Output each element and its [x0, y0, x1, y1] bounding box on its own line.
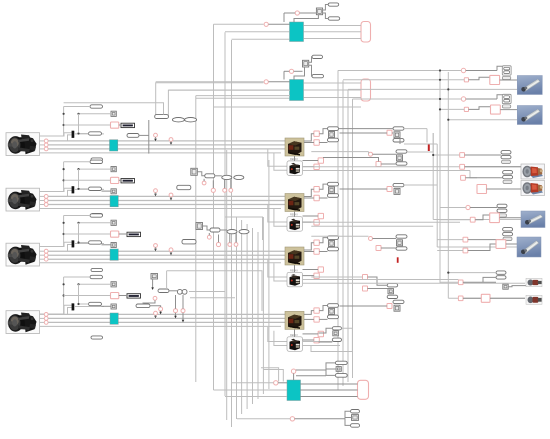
cyan block C5 — [287, 380, 301, 401]
wire vertA — [63, 277, 65, 314]
small gray — [336, 367, 341, 372]
wire ch1 top feed — [64, 103, 164, 115]
wire long3 — [48, 148, 285, 150]
wire — [311, 235, 368, 237]
small pill — [497, 209, 507, 212]
wire — [465, 154, 502, 156]
wire — [439, 108, 464, 110]
small pill — [328, 3, 339, 6]
small gray — [397, 240, 403, 246]
node pink sq — [464, 78, 468, 82]
wire mux out — [74, 243, 104, 245]
node pink sq — [458, 280, 463, 285]
wire — [301, 389, 358, 391]
wire — [368, 277, 388, 285]
merge block — [502, 66, 511, 75]
wire — [303, 341, 333, 343]
pink scope — [111, 177, 119, 183]
wire — [348, 88, 517, 90]
wire stair ch3b — [274, 263, 287, 281]
wire mux up — [68, 245, 72, 252]
wire in1 — [156, 81, 264, 83]
node pink sq — [387, 304, 392, 309]
node — [153, 296, 157, 300]
small gray — [329, 308, 335, 314]
small pill — [210, 228, 220, 232]
wire — [508, 286, 526, 287]
wire long2 — [48, 144, 285, 146]
small gray g1 — [111, 282, 116, 287]
wire long3 — [48, 204, 285, 206]
small gray g1 — [111, 111, 116, 116]
node pink sq — [314, 131, 319, 136]
wire — [300, 12, 317, 14]
wire — [303, 171, 478, 178]
node pink sq — [318, 213, 323, 218]
wire bus right x448 — [447, 72, 449, 298]
small pill — [396, 235, 407, 238]
wire — [212, 180, 214, 188]
wire bus x263.4 — [262, 217, 264, 394]
node pink sq — [318, 331, 323, 336]
display block — [121, 179, 135, 183]
wire in2 — [225, 31, 290, 33]
small pill p2 — [89, 241, 102, 244]
wire — [215, 175, 222, 177]
wire — [294, 212, 296, 217]
node — [174, 309, 178, 313]
wire p2 — [40, 144, 45, 146]
wire p2 — [40, 254, 45, 256]
wire — [237, 418, 290, 420]
small pill — [328, 315, 339, 319]
small pill — [496, 276, 506, 279]
wire long1 — [48, 140, 285, 142]
wire — [311, 276, 362, 278]
arrow — [154, 247, 157, 251]
wire bus x258 — [257, 232, 259, 399]
wire — [303, 282, 526, 284]
node pink sq — [314, 140, 319, 145]
mux — [72, 241, 74, 248]
small gray g2 — [111, 189, 116, 194]
small pill — [496, 271, 506, 274]
node pink sq — [314, 220, 319, 225]
wire — [319, 184, 327, 189]
wire — [303, 339, 314, 341]
wire pill2 in — [77, 132, 88, 134]
node — [291, 369, 295, 373]
wire — [169, 290, 177, 292]
small pill — [328, 247, 339, 251]
wire scope in — [64, 295, 111, 297]
pink scope — [111, 231, 119, 237]
wire — [293, 373, 295, 380]
small motor image SM2 — [526, 295, 542, 304]
small pill — [393, 300, 404, 303]
node — [223, 188, 227, 192]
wire — [229, 234, 231, 243]
node port1 — [44, 139, 48, 143]
wire out3 — [304, 38, 362, 40]
wire — [319, 328, 333, 333]
wire bus x236.5 — [236, 217, 238, 419]
wire — [304, 243, 314, 250]
wire — [159, 311, 162, 314]
node pink sq — [318, 158, 323, 163]
node — [169, 193, 173, 197]
wire pill1 in — [64, 215, 90, 217]
small pill — [328, 127, 339, 131]
node pink sq — [387, 130, 392, 135]
wire bus x338 — [337, 70, 339, 390]
wire — [102, 190, 112, 192]
wire — [499, 217, 521, 219]
arrow — [154, 315, 157, 318]
subsystem cyan — [290, 22, 304, 42]
wire long3 — [48, 258, 285, 260]
small gray — [196, 223, 203, 230]
wire — [475, 215, 490, 220]
wire bus right x437 — [436, 144, 438, 247]
wire — [309, 65, 312, 76]
node pink sq — [363, 275, 368, 280]
wire bus right x440 — [439, 70, 441, 283]
wire long2 — [48, 200, 285, 202]
node port2 — [44, 199, 48, 203]
wire — [440, 207, 466, 209]
small gray — [329, 132, 335, 138]
wire stair ch3a — [268, 259, 287, 277]
wire — [437, 239, 463, 241]
small oval — [227, 230, 237, 234]
small pill — [503, 228, 513, 231]
wire stair ch4a — [268, 327, 288, 342]
wire — [301, 383, 358, 385]
wire — [470, 207, 497, 209]
small gray — [503, 284, 508, 289]
small pill — [91, 213, 103, 216]
small pill p2 — [89, 132, 102, 135]
wire — [224, 180, 226, 189]
small pill p1 — [90, 275, 103, 278]
pink box — [490, 213, 500, 223]
node pink sq — [318, 267, 323, 272]
node — [169, 138, 173, 142]
small pill — [351, 410, 360, 414]
wire bus x252.5 — [252, 228, 254, 404]
small pill p1 — [90, 105, 103, 108]
wire — [296, 375, 326, 377]
cyan block — [110, 249, 118, 260]
node — [211, 188, 215, 192]
node — [234, 243, 238, 247]
small pill low — [182, 240, 196, 244]
wire — [319, 197, 327, 199]
wire — [230, 180, 232, 189]
wire — [500, 79, 518, 81]
wire — [190, 297, 235, 299]
wire — [263, 370, 283, 382]
small pill — [158, 289, 169, 293]
small gray pill — [502, 76, 511, 79]
wire — [284, 13, 295, 22]
wire big loop ch3 — [226, 217, 263, 240]
gearmotor image G2 — [521, 181, 545, 196]
pill B — [155, 115, 169, 119]
wire bus x225a — [224, 32, 226, 396]
node pink sq — [470, 217, 475, 222]
wire — [225, 396, 287, 398]
wire — [448, 297, 525, 299]
wire — [143, 300, 155, 304]
small gray pill — [502, 160, 511, 163]
small pill — [332, 327, 341, 330]
wire p3 — [40, 148, 45, 150]
wire disp — [119, 124, 121, 126]
node port2 — [44, 143, 48, 147]
node pink sq — [460, 153, 465, 158]
small circ2 — [177, 289, 187, 294]
wire — [343, 79, 464, 81]
wire bus x231.5 — [231, 40, 233, 427]
small pill — [335, 374, 347, 378]
wire stair ch1a — [268, 149, 287, 166]
wire bus x241.6 — [241, 220, 243, 414]
node port1 — [44, 313, 48, 317]
wire p0 — [40, 133, 72, 136]
wire — [303, 160, 319, 162]
wire — [497, 66, 502, 70]
small gray g1 — [111, 167, 116, 172]
wire — [338, 69, 461, 71]
outport — [361, 22, 371, 43]
wire — [284, 71, 289, 79]
wire bus right x433 — [432, 133, 434, 220]
wire stair ch2b — [274, 208, 288, 226]
wire — [404, 143, 437, 145]
wire — [261, 368, 279, 382]
node pink sq — [463, 248, 468, 253]
node pink sq — [363, 286, 368, 291]
pink box — [481, 294, 490, 302]
wire p0 — [40, 188, 72, 191]
small gray g2 — [111, 304, 116, 309]
arrow — [170, 141, 173, 144]
wire — [269, 23, 290, 25]
wire — [150, 306, 161, 307]
small block — [316, 8, 322, 15]
wire long1 — [48, 195, 285, 197]
node — [289, 69, 293, 73]
node pink sq — [314, 249, 319, 254]
wire — [490, 297, 525, 299]
wire — [311, 151, 368, 153]
node — [461, 97, 465, 101]
small pill — [503, 232, 513, 235]
wire mux out — [74, 133, 104, 135]
arrow — [170, 252, 173, 256]
node — [202, 181, 206, 185]
demux red — [428, 144, 430, 151]
small pill — [328, 138, 339, 142]
wire — [323, 5, 329, 11]
wire — [345, 419, 351, 426]
wire stair1 — [156, 83, 264, 115]
node — [169, 248, 173, 252]
wire — [469, 107, 491, 110]
wire bus x343 — [342, 80, 344, 386]
small pill — [328, 236, 339, 240]
wire p3 — [40, 258, 45, 260]
small pill — [328, 17, 340, 20]
node pink sq — [314, 240, 319, 245]
wire — [466, 70, 497, 72]
wire — [294, 156, 296, 161]
small pill — [312, 55, 323, 58]
relay block K3 — [287, 269, 303, 287]
wire — [295, 418, 345, 420]
wire — [381, 247, 396, 249]
wire — [483, 277, 496, 282]
small pill — [503, 175, 513, 178]
subsystem cyan — [290, 80, 304, 101]
wire — [345, 417, 352, 419]
small gray — [333, 331, 339, 336]
wire mux up — [68, 135, 72, 141]
wire p3 — [40, 321, 45, 323]
wire — [319, 238, 327, 243]
merge block — [502, 94, 511, 103]
wire — [368, 152, 370, 155]
wire — [311, 225, 433, 227]
wire — [345, 411, 351, 419]
actuator image A3 — [521, 211, 545, 228]
small gray — [329, 187, 335, 193]
wire — [392, 132, 393, 134]
node pink sq — [314, 308, 319, 313]
wire — [487, 188, 522, 190]
wire — [326, 369, 336, 370]
small motor image SM1 — [526, 278, 542, 286]
wire — [304, 134, 314, 141]
arrow — [154, 137, 157, 141]
outport — [361, 79, 371, 101]
actuator image A4 — [517, 237, 541, 257]
small pill — [335, 361, 347, 364]
wire p1 — [40, 313, 45, 315]
wire big loop ch4 — [167, 271, 262, 311]
node pink sq — [314, 164, 319, 169]
relay block K2 — [287, 214, 303, 232]
small gray — [388, 289, 394, 294]
small pill — [328, 182, 339, 186]
wire in1 — [214, 23, 264, 25]
small pill — [503, 171, 513, 174]
small pill — [332, 338, 341, 341]
wire p1 — [40, 195, 45, 197]
node — [207, 235, 211, 239]
small gray — [329, 241, 335, 247]
wire vertA — [63, 107, 65, 137]
small gray pill — [503, 180, 512, 183]
wire — [319, 318, 327, 320]
wire — [468, 239, 503, 241]
wire — [269, 81, 290, 83]
wire — [235, 234, 237, 243]
node port3 — [44, 203, 48, 207]
wire mux up — [68, 190, 72, 196]
wire — [353, 98, 462, 100]
wire — [303, 215, 319, 217]
node — [466, 205, 470, 209]
small gray — [394, 188, 400, 194]
small pill — [387, 284, 398, 287]
wire vertA — [63, 216, 65, 247]
wire pill1 in — [64, 161, 90, 163]
wire vertB — [78, 114, 80, 132]
wire g1 in — [77, 113, 111, 115]
node — [228, 243, 232, 247]
small pill p2 — [89, 302, 102, 305]
wire — [102, 305, 112, 307]
node pink sq — [376, 162, 381, 167]
node — [295, 11, 299, 15]
small pill p1 — [90, 214, 103, 217]
wire — [497, 95, 502, 99]
wire in3 — [196, 97, 290, 99]
wire — [304, 142, 314, 144]
wire long4 — [40, 325, 282, 327]
wire p2 — [40, 200, 45, 202]
wire — [463, 297, 481, 299]
wire long1 — [48, 250, 285, 252]
wire long2 — [48, 254, 285, 256]
wire — [220, 229, 227, 231]
node pink sq — [458, 296, 463, 301]
motor image — [6, 243, 40, 266]
small oval — [239, 230, 249, 234]
outport Out5 — [358, 380, 369, 399]
wire R4 loop — [311, 328, 352, 351]
small pill — [396, 150, 407, 153]
small pill — [91, 336, 103, 339]
wire — [437, 250, 463, 252]
wire — [303, 345, 341, 347]
wire — [440, 281, 458, 283]
node — [216, 242, 220, 246]
wire — [381, 163, 396, 165]
wire pill2 in — [77, 303, 88, 305]
wire — [407, 133, 433, 152]
wire — [151, 279, 154, 290]
wire — [319, 306, 327, 311]
wire — [326, 370, 335, 375]
wire — [301, 396, 358, 398]
wire — [323, 158, 379, 162]
wire — [296, 363, 336, 370]
node — [154, 244, 158, 248]
relay image R3 — [285, 247, 304, 265]
wire — [197, 172, 205, 176]
pink box — [477, 185, 487, 194]
wire mux out — [74, 188, 104, 190]
wire p0 — [40, 305, 72, 314]
small gray — [394, 132, 400, 138]
node — [181, 309, 185, 313]
node pink sq — [387, 187, 392, 192]
small gray — [352, 415, 359, 421]
